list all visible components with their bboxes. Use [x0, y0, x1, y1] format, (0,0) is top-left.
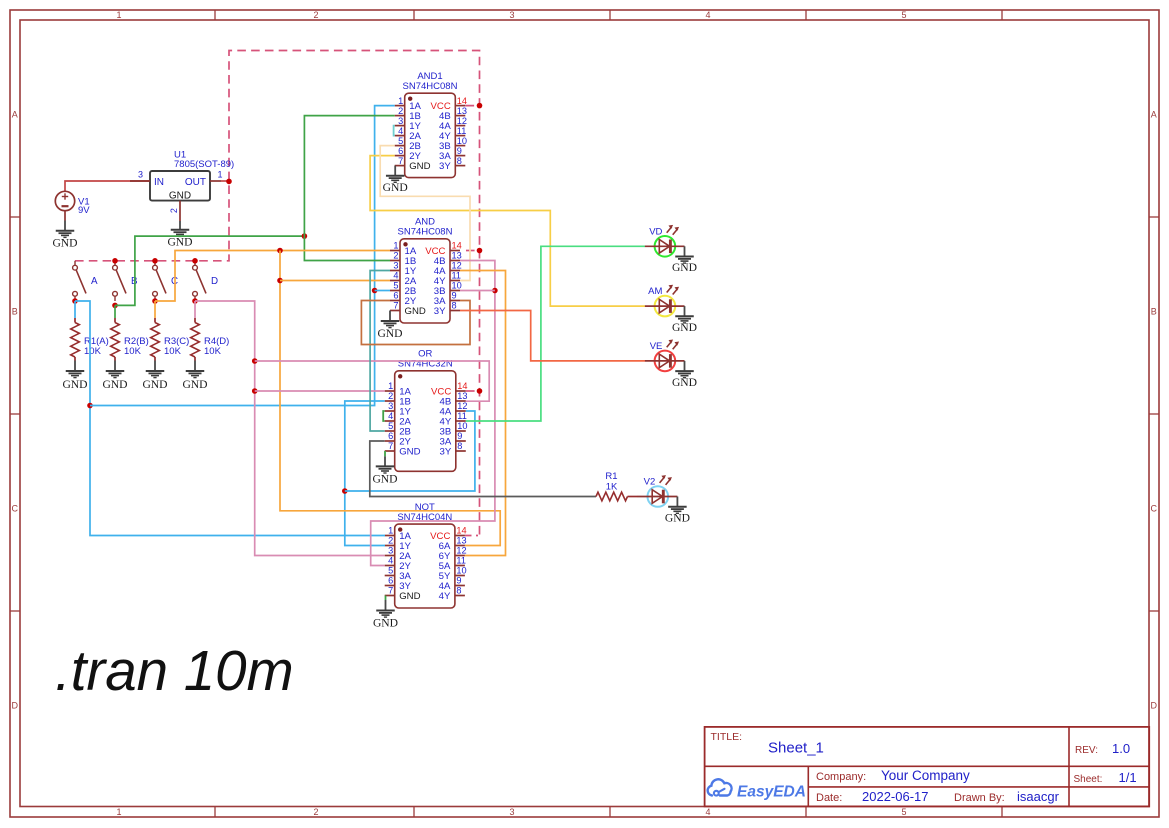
- switch D: [193, 261, 218, 301]
- svg-text:2: 2: [313, 807, 318, 817]
- svg-text:1/1: 1/1: [1119, 770, 1137, 785]
- wire OR 2Y to R1 (gray): [370, 441, 596, 497]
- svg-text:GND: GND: [672, 261, 697, 274]
- ground GND of R2: [102, 361, 127, 391]
- wire switch D to resistor (net color): [194, 301, 196, 318]
- resistor R1(A) 10K: [71, 323, 80, 358]
- svg-text:1: 1: [393, 241, 398, 251]
- svg-text:GND: GND: [102, 378, 127, 391]
- ground GND of NOT pin7: [373, 600, 398, 630]
- svg-text:VD: VD: [649, 226, 662, 237]
- resistor R1 1K: [596, 492, 628, 501]
- svg-text:10K: 10K: [84, 346, 102, 357]
- svg-text:14: 14: [457, 381, 467, 391]
- junction OR VCC: [477, 388, 483, 394]
- svg-text:GND: GND: [377, 327, 402, 340]
- svg-text:7: 7: [388, 586, 393, 596]
- resistor R3(C) 10K: [151, 323, 160, 358]
- svg-text:V2: V2: [644, 477, 656, 488]
- svg-text:IN: IN: [154, 177, 164, 188]
- svg-text:8: 8: [452, 301, 457, 311]
- wire net C from switch C: [155, 251, 390, 302]
- wire OR pin7 green tick: [384, 451, 386, 456]
- junction switch C output node: [152, 298, 158, 304]
- svg-text:1: 1: [388, 381, 393, 391]
- svg-text:9: 9: [457, 146, 462, 156]
- wire R2 to ground: [114, 357, 116, 361]
- svg-text:OUT: OUT: [185, 177, 206, 188]
- resistor R2(B) 10K: [111, 323, 120, 358]
- wire OR 1Y to 2A bracket (green): [383, 411, 385, 421]
- resistor R3(C) labels: [164, 336, 189, 357]
- svg-text:3Y: 3Y: [440, 447, 452, 458]
- wire switch C to resistor (net color): [154, 301, 156, 318]
- junction U1 OUT +5V: [226, 179, 232, 185]
- svg-text:.tran 10m: .tran 10m: [55, 639, 294, 702]
- junction AND VCC: [477, 248, 483, 254]
- svg-text:Company:: Company:: [816, 771, 866, 783]
- svg-text:5: 5: [901, 10, 906, 20]
- svg-text:5: 5: [388, 421, 393, 431]
- LED VD: [645, 225, 697, 274]
- resistor R3(C) 10K lead: [154, 318, 156, 323]
- svg-text:R1: R1: [605, 471, 617, 482]
- IC NOT SN74HC04N: [385, 502, 467, 608]
- voltage source V1 9V: [55, 191, 90, 216]
- junction switch D top: [192, 258, 198, 264]
- switch B: [113, 261, 138, 301]
- LED VE: [645, 340, 697, 389]
- junction net A at AND 2B: [372, 288, 378, 294]
- svg-text:GND: GND: [383, 181, 408, 194]
- svg-text:1: 1: [116, 10, 121, 20]
- svg-text:9: 9: [452, 291, 457, 301]
- wire AND 4B to NOT 2Y (rose): [371, 261, 495, 566]
- svg-text:GND: GND: [182, 378, 207, 391]
- resistor R4(D) 10K: [191, 323, 200, 358]
- svg-text:5: 5: [388, 566, 393, 576]
- svg-text:4: 4: [388, 556, 393, 566]
- wire V1 to U1 IN (red): [65, 181, 150, 191]
- resistor R1(A) labels: [84, 336, 109, 357]
- svg-text:1: 1: [116, 807, 121, 817]
- junction net B split: [302, 233, 308, 239]
- wire net B from switch B up: [115, 236, 304, 305]
- ground GND of AND1 pin7: [383, 166, 408, 194]
- EasyEDA logo: [708, 779, 806, 800]
- svg-text:10K: 10K: [164, 346, 182, 357]
- wire AND pin7 to ground: [389, 311, 391, 322]
- svg-text:D: D: [211, 276, 218, 287]
- junction AND1 VCC: [477, 103, 483, 109]
- svg-text:B: B: [1151, 307, 1157, 317]
- svg-text:11: 11: [457, 126, 467, 136]
- wire +5V stub to NOT VCC pin14: [465, 535, 478, 537]
- switch A: [73, 261, 98, 301]
- svg-text:GND: GND: [665, 511, 690, 524]
- svg-text:6: 6: [393, 291, 398, 301]
- svg-text:TITLE:: TITLE:: [711, 731, 743, 743]
- wire net D to OR 1A: [255, 390, 385, 392]
- junction switch A output node: [72, 298, 78, 304]
- svg-text:D: D: [12, 701, 19, 711]
- ground GND of R4: [182, 361, 207, 391]
- wire +5V dashed rail (switch tops to U1 out, to VCC column): [75, 51, 480, 536]
- svg-text:3: 3: [509, 10, 514, 20]
- svg-text:A: A: [12, 110, 18, 120]
- svg-text:GND: GND: [399, 591, 420, 602]
- svg-text:Sheet:: Sheet:: [1074, 774, 1103, 785]
- svg-text:12: 12: [452, 261, 462, 271]
- wire AND1 2Y to AM LED (yellow): [370, 156, 645, 307]
- wire +5V stub to OR VCC pin14: [466, 390, 480, 392]
- wire +5V stub to AND VCC pin14: [466, 250, 480, 252]
- svg-text:10: 10: [456, 566, 466, 576]
- svg-text:2: 2: [388, 536, 393, 546]
- svg-text:1.0: 1.0: [1112, 741, 1130, 756]
- svg-text:3: 3: [388, 546, 393, 556]
- svg-text:7: 7: [398, 156, 403, 166]
- svg-text:7805(SOT-89): 7805(SOT-89): [174, 159, 234, 170]
- ground GND of U1: [167, 221, 192, 248]
- svg-text:12: 12: [456, 546, 466, 556]
- svg-text:7: 7: [388, 441, 393, 451]
- svg-text:13: 13: [457, 391, 467, 401]
- wire AND 3Y to VE LED (tomato): [460, 311, 645, 361]
- resistor R2(B) 10K lead: [114, 318, 116, 323]
- wire NOT pin7 green tick: [385, 596, 387, 601]
- svg-text:6: 6: [388, 431, 393, 441]
- svg-text:A: A: [1151, 110, 1157, 120]
- svg-text:1K: 1K: [606, 482, 618, 493]
- svg-text:13: 13: [452, 251, 462, 261]
- svg-text:Sheet_1: Sheet_1: [768, 740, 824, 757]
- svg-text:14: 14: [457, 96, 467, 106]
- svg-text:4: 4: [388, 411, 393, 421]
- wire net C branch to AND 2A: [280, 280, 390, 282]
- LED AM: [645, 285, 697, 334]
- wire net A branch to AND 2B: [375, 290, 390, 292]
- svg-text:GND: GND: [167, 235, 192, 248]
- regulator U1 7805(SOT-89): [130, 149, 234, 221]
- wire net D from switch D: [195, 301, 385, 556]
- svg-text:AM: AM: [648, 286, 662, 297]
- svg-text:10K: 10K: [124, 346, 142, 357]
- svg-text:4: 4: [705, 807, 710, 817]
- svg-text:2: 2: [393, 251, 398, 261]
- junction net D to OR 1A: [252, 388, 258, 394]
- svg-text:GND: GND: [409, 161, 430, 172]
- resistor R1(A) 10K lead: [74, 318, 76, 323]
- svg-text:4: 4: [398, 126, 403, 136]
- svg-text:1: 1: [218, 170, 223, 180]
- svg-text:9: 9: [457, 431, 462, 441]
- junction net C at AND 2A: [277, 278, 283, 284]
- wire +5V stub to AND1 VCC pin14: [466, 105, 480, 107]
- wire switch A to resistor (net color): [74, 301, 76, 318]
- svg-text:3Y: 3Y: [439, 161, 451, 172]
- ground GND of AND pin7: [377, 321, 402, 340]
- junction switch C top: [152, 258, 158, 264]
- svg-text:1: 1: [388, 526, 393, 536]
- svg-text:3Y: 3Y: [434, 306, 446, 317]
- svg-text:GND: GND: [142, 378, 167, 391]
- svg-text:4: 4: [393, 271, 398, 281]
- wire R1 to V2 LED: [628, 496, 639, 498]
- svg-text:GND: GND: [62, 378, 87, 391]
- LED V2: [638, 475, 690, 524]
- wire net B to AND 1B: [304, 236, 390, 260]
- junction net A split: [87, 403, 93, 409]
- svg-text:REV:: REV:: [1075, 745, 1098, 756]
- junction switch D output node: [192, 298, 198, 304]
- svg-text:GND: GND: [405, 306, 426, 317]
- svg-text:Date:: Date:: [816, 792, 842, 804]
- svg-text:VE: VE: [650, 341, 663, 352]
- wire net B to AND1 1B: [304, 116, 394, 237]
- svg-text:1: 1: [398, 96, 403, 106]
- IC AND1 SN74HC08N: [395, 71, 467, 178]
- svg-text:D: D: [1151, 701, 1158, 711]
- wire net A to AND1 1A: [90, 106, 395, 406]
- svg-text:GND: GND: [52, 237, 77, 250]
- svg-text:GND: GND: [672, 376, 697, 389]
- svg-text:isaacgr: isaacgr: [1017, 789, 1060, 804]
- svg-text:5: 5: [398, 136, 403, 146]
- resistor R4(D) labels: [204, 336, 229, 357]
- resistor R2(B) labels: [124, 336, 149, 357]
- wire AND1 1Y to 2A bracket: [394, 126, 395, 136]
- svg-text:11: 11: [457, 411, 467, 421]
- svg-text:10K: 10K: [204, 346, 222, 357]
- svg-text:GND: GND: [373, 617, 398, 630]
- svg-text:Your Company: Your Company: [881, 768, 970, 783]
- wire NOT 1Y net to OR 4A: [345, 411, 475, 491]
- wire AND 2Y to AND 3A (brick): [361, 301, 470, 345]
- svg-text:GND: GND: [169, 190, 191, 201]
- svg-text:4: 4: [705, 10, 710, 20]
- svg-text:2: 2: [169, 208, 179, 213]
- svg-text:Drawn By:: Drawn By:: [954, 792, 1005, 804]
- wire AND 3B branch: [460, 290, 495, 292]
- svg-text:2: 2: [398, 106, 403, 116]
- ground GND of R3: [142, 361, 167, 391]
- svg-text:8: 8: [457, 441, 462, 451]
- wire V1 minus lead: [64, 211, 66, 221]
- svg-text:9V: 9V: [78, 205, 90, 216]
- wire switch B to resistor (net color): [114, 305, 116, 318]
- svg-text:2: 2: [313, 10, 318, 20]
- junction switch B top: [112, 258, 118, 264]
- svg-text:GND: GND: [372, 472, 397, 485]
- wire OR 4Y to VD LED (mint green): [466, 246, 645, 421]
- junction AND 3B on rose net: [492, 288, 498, 294]
- svg-text:5: 5: [901, 807, 906, 817]
- svg-text:13: 13: [457, 106, 467, 116]
- svg-text:2: 2: [388, 391, 393, 401]
- svg-text:11: 11: [456, 556, 466, 566]
- svg-text:2022-06-17: 2022-06-17: [862, 789, 929, 804]
- svg-text:SN74HC08N: SN74HC08N: [398, 227, 453, 238]
- svg-text:3: 3: [398, 116, 403, 126]
- svg-text:C: C: [12, 504, 19, 514]
- svg-text:12: 12: [457, 401, 467, 411]
- svg-text:10: 10: [457, 421, 467, 431]
- svg-text:6: 6: [398, 146, 403, 156]
- junction NOT 1Y net: [342, 488, 348, 494]
- svg-text:C: C: [1151, 504, 1158, 514]
- svg-text:8: 8: [456, 586, 461, 596]
- junction switch B output node: [112, 303, 118, 309]
- svg-text:B: B: [12, 307, 18, 317]
- svg-text:3: 3: [388, 401, 393, 411]
- svg-text:GND: GND: [399, 447, 420, 458]
- svg-text:10: 10: [457, 136, 467, 146]
- wire NOT 1Y to OR 1B: [345, 401, 385, 546]
- junction net D to OR 4B: [252, 358, 258, 364]
- resistor R1 1K labels: [605, 471, 618, 493]
- svg-text:9: 9: [456, 576, 461, 586]
- junction net C at AND 1A rail: [277, 248, 283, 254]
- ground GND of OR pin7: [372, 456, 397, 485]
- wire net D to OR 4B: [255, 361, 490, 401]
- svg-text:EasyEDA: EasyEDA: [737, 784, 806, 801]
- svg-text:6: 6: [388, 576, 393, 586]
- svg-text:3: 3: [138, 170, 143, 180]
- svg-text:14: 14: [452, 241, 462, 251]
- svg-text:7: 7: [393, 301, 398, 311]
- svg-text:SN74HC08N: SN74HC08N: [403, 81, 458, 92]
- svg-text:11: 11: [452, 271, 462, 281]
- svg-text:13: 13: [456, 536, 466, 546]
- IC OR SN74HC32N: [385, 349, 468, 472]
- svg-text:3: 3: [393, 261, 398, 271]
- ground GND of R1: [62, 361, 87, 391]
- wire AND 4A to NOT 6Y (orange): [460, 271, 506, 556]
- svg-text:14: 14: [456, 526, 466, 536]
- wire net A from switch A down: [75, 301, 385, 536]
- svg-text:8: 8: [457, 156, 462, 166]
- wire R3 to ground: [154, 357, 156, 361]
- wire AND 4Y to AND1 2B (peach): [380, 146, 470, 281]
- wire R1 to ground: [74, 357, 76, 361]
- ground GND of V1: [52, 221, 77, 250]
- wire net C down: [280, 251, 500, 546]
- resistor R4(D) 10K lead: [194, 318, 196, 323]
- svg-text:GND: GND: [672, 321, 697, 334]
- svg-text:4Y: 4Y: [439, 591, 451, 602]
- wire AND 1Y to OR 2B (teal): [370, 271, 390, 432]
- svg-text:3: 3: [509, 807, 514, 817]
- svg-text:A: A: [91, 276, 98, 287]
- wire R4 to ground: [194, 357, 196, 361]
- svg-text:12: 12: [457, 116, 467, 126]
- switch C: [153, 261, 178, 301]
- svg-text:10: 10: [452, 281, 462, 291]
- IC AND SN74HC08N: [390, 217, 462, 323]
- title block frame: [705, 727, 1150, 807]
- svg-text:5: 5: [393, 281, 398, 291]
- wire U1 OUT to +5V junction (red): [221, 180, 229, 182]
